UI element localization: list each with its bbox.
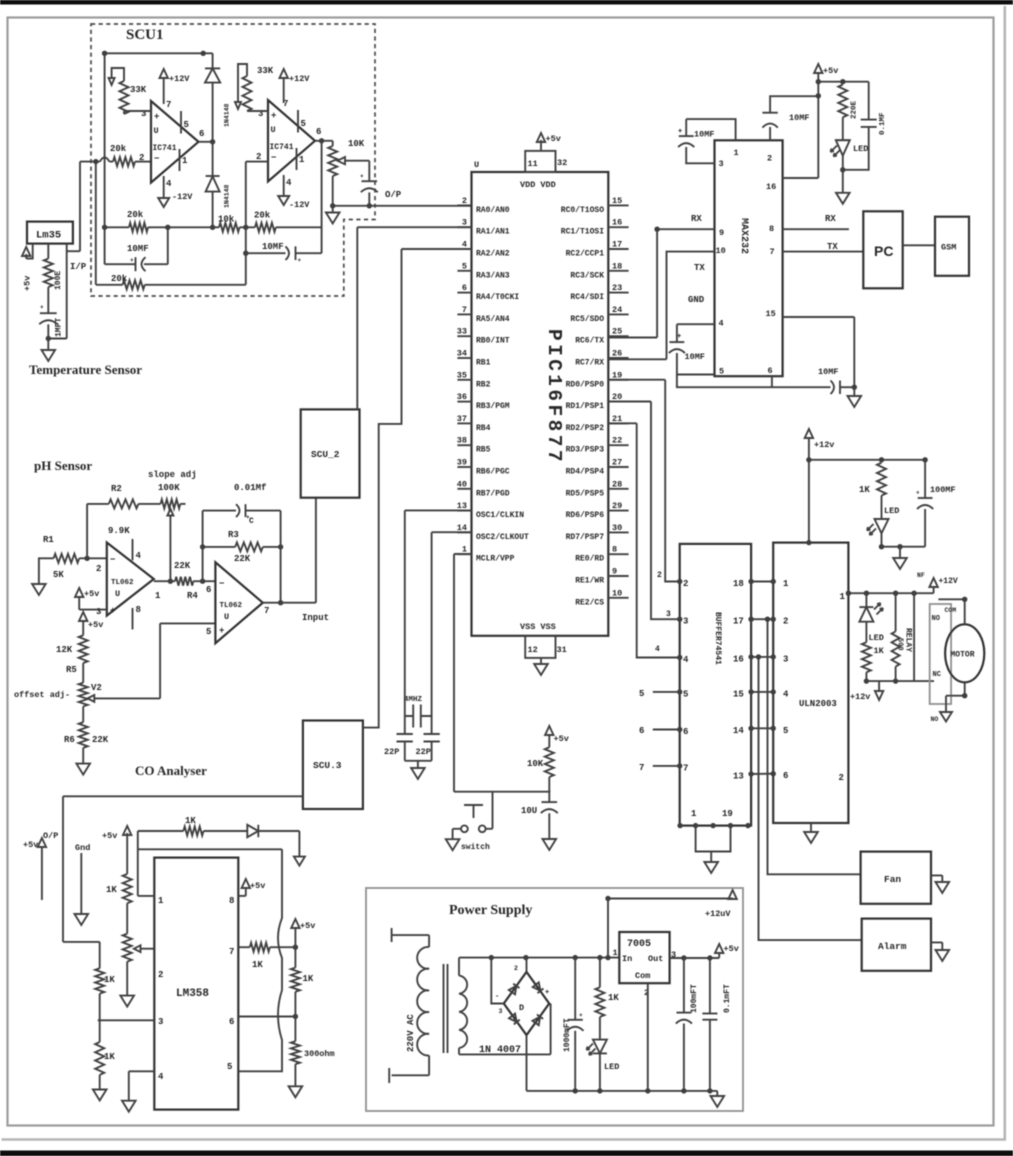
svg-text:RA3/AN3: RA3/AN3 (476, 271, 510, 280)
pin 7 RA5/AN4 (457, 313, 471, 315)
svg-text:I/P: I/P (70, 262, 87, 272)
svg-text:2: 2 (783, 617, 788, 627)
svg-text:Lm35: Lm35 (36, 230, 61, 242)
svg-text:TL062: TL062 (220, 602, 243, 610)
resistor 20k input (113, 157, 135, 166)
svg-text:1: 1 (691, 809, 697, 819)
svg-text:RA2/AN2: RA2/AN2 (476, 250, 510, 259)
svg-text:+: + (219, 626, 224, 636)
svg-text:3: 3 (783, 654, 788, 664)
svg-text:20k: 20k (110, 144, 127, 154)
svg-text:5: 5 (301, 119, 306, 129)
wire LED bottom row (882, 546, 926, 548)
svg-text:2: 2 (96, 564, 101, 574)
resistor 1K feedback (138, 830, 184, 832)
ground Alarm (931, 942, 942, 950)
svg-text:5: 5 (206, 627, 211, 637)
supply +12V op1 (163, 77, 165, 104)
svg-text:5: 5 (719, 367, 724, 377)
diode feedback (204, 830, 248, 832)
svg-text:1: 1 (155, 591, 161, 601)
pins 11 32 VDD notch (525, 151, 555, 172)
svg-text:15: 15 (733, 689, 744, 699)
svg-text:1K: 1K (608, 993, 619, 1003)
svg-text:Fan: Fan (884, 874, 901, 885)
svg-text:5: 5 (462, 261, 467, 271)
svg-text:36: 36 (457, 392, 467, 402)
svg-text:1: 1 (734, 148, 739, 158)
resistor 1K chain1 (123, 874, 132, 903)
svg-text:VDD VDD: VDD VDD (520, 180, 556, 190)
svg-text:4: 4 (166, 179, 172, 189)
svg-text:4: 4 (158, 1072, 164, 1082)
pin 21 RD2/PSP2 (608, 422, 628, 424)
svg-text:20k: 20k (111, 274, 128, 284)
svg-text:LM358: LM358 (176, 988, 209, 1000)
svg-text:3: 3 (719, 159, 724, 169)
resistor 1K relay (862, 642, 871, 672)
LED power supply (599, 1017, 601, 1040)
svg-text:MOTOR: MOTOR (951, 651, 975, 660)
IC buffer 74541 box (680, 544, 751, 826)
pin 24 RC5/SDO (608, 313, 628, 315)
border top black bar (0, 0, 1013, 5)
svg-text:220V AC: 220V AC (406, 1014, 416, 1052)
wire pin3 op2 (247, 110, 268, 112)
svg-text:VSS VSS: VSS VSS (520, 622, 556, 632)
svg-text:R2: R2 (111, 484, 122, 494)
box SCU_2 (301, 409, 360, 497)
resistor 1K pin7 (238, 946, 250, 948)
wire output row tl1 (154, 580, 175, 582)
ground LED serial (842, 170, 844, 193)
svg-text:+: + (298, 257, 302, 264)
svg-text:BUFFER74541: BUFFER74541 (713, 612, 722, 665)
svg-text:10MF: 10MF (789, 113, 809, 123)
capacitor 22P right (431, 716, 433, 734)
svg-text:RD7/PSP7: RD7/PSP7 (566, 533, 605, 542)
ground PIC (540, 658, 542, 664)
sensor Lm35 box (27, 222, 73, 244)
svg-text:GND: GND (688, 295, 705, 305)
svg-text:Out: Out (648, 954, 663, 964)
svg-text:+12v: +12v (850, 692, 870, 702)
svg-text:1N4148: 1N4148 (224, 184, 231, 208)
svg-text:RC6/TX: RC6/TX (575, 337, 604, 346)
pin 8 RE0/RD (608, 553, 628, 555)
wire feedback column op2 (321, 141, 323, 253)
svg-text:Input: Input (302, 613, 329, 623)
svg-text:10U: 10U (521, 806, 537, 816)
svg-text:R3: R3 (228, 530, 239, 540)
svg-text:3: 3 (499, 1008, 503, 1015)
svg-text:+: + (271, 111, 276, 121)
wire pin15 (783, 317, 855, 387)
svg-text:-: - (495, 993, 499, 1001)
capacitor 0.01Mf C (203, 511, 281, 582)
capacitor 10MF pin15-6 (831, 381, 835, 395)
wire RD2 to buffer pin4 (608, 423, 679, 657)
svg-text:1000mFT: 1000mFT (563, 1018, 572, 1052)
pin 8 bar tl1 (132, 608, 134, 629)
svg-text:RB5: RB5 (476, 446, 491, 455)
svg-text:RA5/AN4: RA5/AN4 (476, 315, 510, 324)
svg-text:24: 24 (612, 305, 622, 315)
svg-text:SCU.3: SCU.3 (313, 760, 342, 771)
relay coil 500 (895, 593, 897, 631)
svg-text:7: 7 (683, 763, 688, 773)
wire MCLR row (454, 791, 550, 793)
svg-text:Com: Com (635, 971, 650, 981)
svg-text:1K: 1K (874, 646, 885, 656)
svg-text:RC7/RX: RC7/RX (575, 359, 604, 368)
svg-text:LED: LED (884, 506, 899, 516)
svg-text:30: 30 (612, 523, 622, 533)
svg-text:5: 5 (783, 726, 788, 736)
wire output op2 (315, 140, 333, 142)
svg-text:pH Sensor: pH Sensor (34, 458, 92, 473)
svg-text:5: 5 (639, 689, 644, 699)
svg-text:13: 13 (733, 772, 744, 782)
svg-text:10MF: 10MF (818, 367, 838, 377)
svg-text:+: + (916, 490, 920, 497)
resistor 220E (838, 85, 847, 118)
pin 1 bar op1 (179, 149, 181, 171)
pin 17 RC2/CCP1 (608, 248, 628, 250)
svg-text:1N4148: 1N4148 (224, 103, 231, 127)
svg-text:28: 28 (612, 479, 622, 489)
wire output op1 (199, 141, 213, 143)
svg-text:6: 6 (229, 1017, 234, 1027)
svg-text:1: 1 (613, 948, 618, 958)
svg-text:9.9K: 9.9K (108, 526, 130, 536)
svg-text:switch: switch (461, 843, 490, 852)
pin 15 RC0/T1OSO (608, 204, 628, 206)
pin 1 bar op2 (296, 148, 298, 170)
node op2 inverting column (245, 162, 247, 285)
svg-text:OSC1/CLKIN: OSC1/CLKIN (476, 511, 524, 520)
svg-text:10K: 10K (348, 139, 365, 149)
wire O/P row to PIC pin2 (333, 205, 472, 207)
svg-text:-12V: -12V (172, 192, 193, 202)
svg-text:1K: 1K (859, 485, 870, 495)
capacitor 10MF pin1-3 (686, 119, 735, 140)
capacitor 100MF (924, 460, 926, 498)
svg-text:offset adj-: offset adj- (14, 690, 70, 700)
svg-text:10K: 10K (527, 759, 544, 769)
wire RA1 to SCU_2 (357, 227, 471, 409)
capacitor 10U (548, 792, 550, 802)
wire RD0 to buffer pin2 (608, 380, 679, 582)
box PC (863, 211, 902, 288)
svg-text:In: In (622, 954, 632, 964)
ground Fan (931, 875, 942, 882)
wire DC top rail (459, 957, 619, 959)
svg-text:+5v: +5v (84, 589, 99, 599)
svg-text:U: U (154, 126, 159, 136)
pin 14 OSC2/CLKOUT (457, 531, 471, 533)
svg-text:500: 500 (896, 638, 904, 651)
potentiometer LM358 (123, 934, 132, 962)
svg-text:10: 10 (612, 588, 622, 598)
supply +5v pin8 (238, 895, 246, 897)
svg-text:+5v: +5v (23, 276, 33, 291)
resistor 1K LED12 (877, 463, 886, 496)
svg-text:5K: 5K (53, 570, 64, 580)
svg-text:220E: 220E (851, 100, 859, 119)
svg-text:RC5/SDO: RC5/SDO (570, 315, 604, 324)
svg-text:15: 15 (766, 309, 776, 319)
svg-text:6: 6 (683, 727, 688, 737)
svg-text:9: 9 (612, 567, 617, 577)
LED power 12v (875, 518, 889, 520)
supply +12v down relay (878, 681, 880, 691)
svg-text:RA4/T0CKI: RA4/T0CKI (476, 293, 519, 302)
wire buffer pin17 to Fan (768, 619, 861, 874)
wire feedback row SCU1 (105, 226, 322, 228)
wire RD1 to buffer pin3 (608, 402, 679, 620)
svg-text:2: 2 (256, 152, 261, 162)
svg-text:LED: LED (604, 1062, 619, 1072)
svg-text:4: 4 (655, 645, 660, 654)
svg-text:CO Analyser: CO Analyser (135, 763, 207, 778)
ground below O/P (332, 206, 334, 213)
transformer secondary (459, 976, 467, 994)
supply +5v divider (79, 612, 87, 621)
svg-text:38: 38 (457, 436, 467, 446)
svg-text:16: 16 (612, 218, 622, 228)
svg-text:RA0/AN0: RA0/AN0 (476, 206, 510, 215)
pin 40 RB7/PGD (457, 488, 471, 490)
resistor 20k feedback2 (255, 223, 276, 232)
resistor 20k bottom (96, 284, 246, 286)
wire OSC2 (432, 531, 472, 533)
pin 30 RD7/PSP7 (608, 531, 628, 533)
svg-text:25: 25 (612, 327, 622, 337)
svg-text:RC2/CCP1: RC2/CCP1 (566, 250, 605, 259)
capacitor 1MFT (40, 312, 57, 314)
svg-text:2: 2 (767, 154, 772, 164)
svg-text:slope adj: slope adj (148, 470, 197, 480)
svg-text:10k: 10k (218, 215, 235, 225)
resistor 1K pin3 lower (99, 1020, 101, 1042)
pin 4 RA2/AN2 (457, 248, 471, 250)
svg-text:1: 1 (182, 156, 188, 166)
capacitor 0.1MF (868, 82, 870, 120)
resistor 300ohm (294, 1017, 296, 1042)
svg-text:+12V: +12V (939, 577, 958, 586)
svg-text:17: 17 (612, 240, 622, 250)
wire CO output to SCU_3 (63, 796, 303, 942)
wire RX out pin8 (783, 228, 849, 230)
op-amp TL062 second (215, 562, 262, 643)
capacitor 10MF pin4-5 (677, 324, 715, 342)
svg-text:1: 1 (840, 592, 846, 602)
svg-text:0.1MF: 0.1MF (879, 112, 887, 135)
svg-text:37: 37 (457, 414, 467, 424)
wire pin3 op1 (124, 110, 151, 112)
svg-text:+5v: +5v (724, 944, 739, 954)
svg-text:16: 16 (733, 654, 744, 664)
svg-text:RC4/SDI: RC4/SDI (570, 293, 604, 302)
svg-text:RD6/PSP6: RD6/PSP6 (566, 511, 605, 520)
svg-text:39: 39 (457, 458, 467, 468)
svg-text:+12v: +12v (814, 440, 834, 450)
svg-text:RB1: RB1 (476, 359, 491, 368)
wire input row with hop (80, 157, 113, 161)
wire +12v rail LED (809, 459, 925, 461)
svg-text:+12V: +12V (289, 74, 310, 84)
svg-text:100K: 100K (158, 483, 180, 493)
svg-text:SCU_2: SCU_2 (311, 449, 340, 460)
svg-text:+: + (579, 1012, 583, 1019)
wire COM to motor (938, 598, 964, 600)
wire I/P to SCU1 (67, 162, 80, 252)
svg-text:NF: NF (917, 572, 925, 579)
box SCU_3 (303, 721, 363, 810)
svg-text:NO: NO (931, 716, 939, 723)
SCU1 dashed box (91, 24, 375, 296)
pin 10 RE2/CS (608, 597, 628, 599)
svg-text:MCLR/VPP: MCLR/VPP (476, 555, 515, 564)
svg-text:RE0/RD: RE0/RD (575, 555, 604, 564)
resistor R6 22K (79, 722, 88, 748)
svg-text:ULN2003: ULN2003 (799, 699, 837, 709)
svg-text:RD4/PSP4: RD4/PSP4 (566, 468, 605, 477)
svg-text:6: 6 (639, 726, 644, 736)
svg-text:6: 6 (768, 366, 773, 376)
svg-text:+: + (545, 989, 549, 997)
svg-text:1: 1 (158, 896, 164, 906)
svg-text:18: 18 (612, 261, 622, 271)
svg-text:SCU1: SCU1 (126, 27, 164, 43)
svg-text:C: C (249, 517, 254, 526)
svg-text:IC741: IC741 (153, 144, 177, 153)
svg-text:33: 33 (457, 327, 467, 337)
svg-text:35: 35 (457, 370, 467, 380)
wiper 10K (338, 157, 346, 164)
svg-text:0.01Mf: 0.01Mf (234, 483, 266, 493)
resistor 1K divider out (291, 968, 300, 992)
svg-text:−: − (219, 579, 224, 589)
svg-text:18: 18 (733, 579, 744, 589)
pin 23 RC4/SDI (608, 292, 628, 294)
svg-text:3: 3 (158, 1017, 163, 1027)
svg-text:TL062: TL062 (111, 579, 134, 587)
ground pot LM358 (120, 996, 134, 1007)
pin 9 RE1/WR (608, 575, 628, 577)
svg-text:+5v: +5v (23, 840, 38, 850)
svg-text:O/P: O/P (385, 190, 402, 200)
LED relay (865, 593, 867, 607)
pin 37 RB4 (457, 422, 471, 424)
svg-text:5: 5 (227, 1062, 232, 1072)
svg-text:NC: NC (933, 671, 941, 679)
wire MCLR (454, 554, 472, 792)
resistor R3 22K (203, 546, 281, 548)
svg-text:R4: R4 (187, 591, 198, 601)
wire 7805 out rail (670, 957, 720, 959)
svg-text:7: 7 (264, 606, 269, 616)
svg-text:1K: 1K (303, 974, 314, 984)
wire buffer pin16 to Alarm (759, 657, 862, 940)
svg-text:20k: 20k (254, 211, 271, 221)
op-amp IC741 second (268, 100, 315, 182)
pin 6 RA4/T0CKI (457, 292, 471, 294)
ground pin3 chain (93, 1090, 107, 1101)
pin 5 bar op2 (297, 110, 299, 133)
wire pin1 to pin5 curvy (138, 849, 282, 1071)
wire pin4 ground (129, 1071, 155, 1100)
ground crystal (405, 761, 432, 768)
svg-text:22K: 22K (174, 561, 191, 571)
svg-text:4: 4 (683, 655, 689, 665)
pin 1 MCLR/VPP (457, 553, 471, 555)
svg-text:6: 6 (783, 771, 788, 781)
svg-text:8: 8 (229, 896, 234, 906)
wire RA2 to SCU_3 (363, 249, 472, 728)
pin 27 RD4/PSP4 (608, 466, 628, 468)
IC ULN2003 box (773, 543, 848, 823)
svg-text:7: 7 (770, 247, 775, 257)
wire pin3 divider (98, 1019, 155, 1021)
wire bridge left corner (491, 958, 504, 1004)
wire pin1 feedback (138, 831, 155, 896)
svg-text:8: 8 (769, 224, 774, 234)
wire relay bottom row (866, 680, 934, 682)
svg-text:RE1/WR: RE1/WR (575, 577, 604, 586)
svg-text:20k: 20k (127, 210, 144, 220)
svg-text:100E: 100E (54, 271, 63, 290)
ground 300ohm (289, 1086, 303, 1097)
wire TX out pin7 to PC (783, 251, 864, 253)
svg-text:2: 2 (683, 579, 688, 589)
svg-text:RB6/PGC: RB6/PGC (476, 468, 510, 477)
pin 6 stub (771, 376, 773, 387)
wire power ground rail (527, 1090, 718, 1092)
svg-text:D: D (519, 1003, 524, 1013)
svg-text:2: 2 (139, 153, 144, 163)
ground LED 12v (899, 547, 901, 558)
wire Lm35 +5v pin (26, 244, 33, 259)
switch reset (464, 804, 483, 806)
capacitor 0.1mFT (709, 958, 711, 1014)
svg-text:7: 7 (166, 100, 171, 110)
transformer core (443, 964, 445, 1053)
pin 34 RB1 (457, 357, 471, 359)
svg-text:33K: 33K (130, 85, 147, 95)
wire pin6 (238, 1016, 295, 1018)
node input column (95, 162, 97, 285)
wire feedback right column tl2 (280, 511, 282, 603)
svg-text:Temperature Sensor: Temperature Sensor (29, 362, 142, 377)
pin 28 RD5/PSP5 (608, 488, 628, 490)
svg-text:COM: COM (945, 607, 957, 614)
svg-text:+12V: +12V (169, 74, 190, 84)
svg-text:RD2/PSP2: RD2/PSP2 (566, 424, 605, 433)
svg-text:RELAY: RELAY (904, 628, 913, 652)
potentiometer offset adj (79, 683, 88, 707)
svg-text:4MHZ: 4MHZ (404, 696, 423, 704)
svg-text:+: + (360, 173, 364, 180)
pin 16 RC1/T1OSI (608, 226, 628, 228)
wires buffer outputs to ULN inputs (751, 581, 773, 583)
svg-text:9: 9 (719, 228, 724, 238)
box Fan (861, 852, 931, 904)
svg-text:6: 6 (316, 127, 321, 137)
relay contact bar (913, 593, 915, 681)
ground R1 (32, 584, 46, 595)
